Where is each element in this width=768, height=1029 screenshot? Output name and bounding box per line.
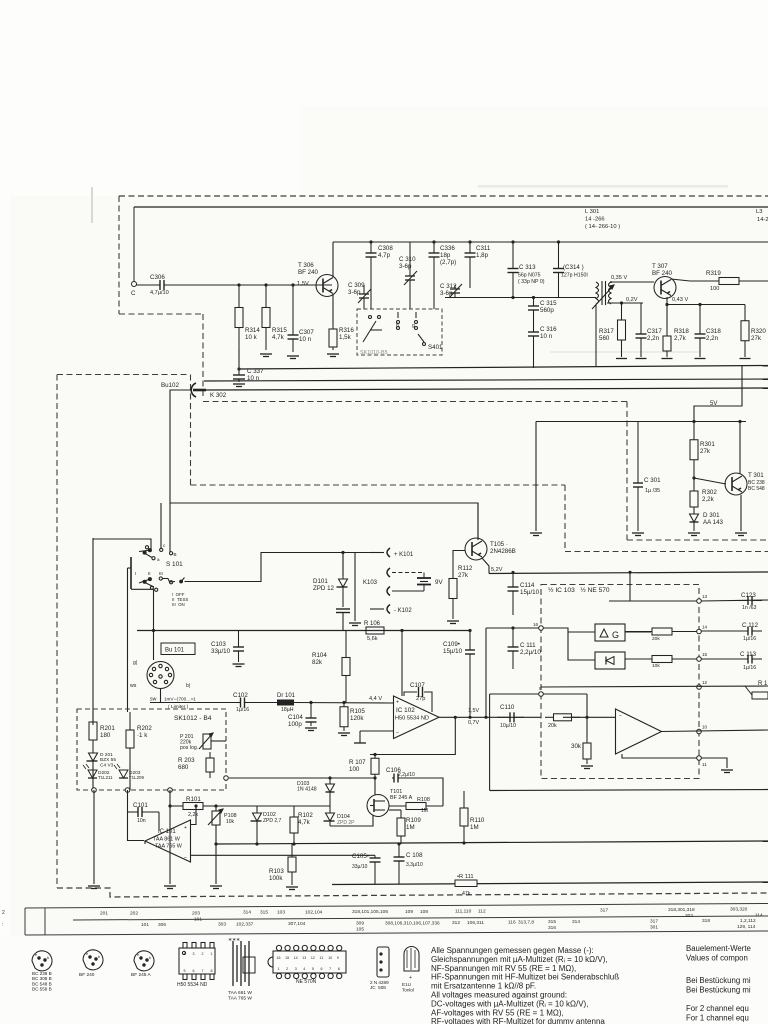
svg-text:14: 14 xyxy=(702,625,708,630)
svg-text:5: 5 xyxy=(312,967,314,971)
trimmer C312 xyxy=(449,284,462,298)
svg-text:Bei Bestückung mi: Bei Bestückung mi xyxy=(686,976,751,985)
T301 emitter wire xyxy=(740,495,742,531)
svg-text:+: + xyxy=(396,700,399,706)
svg-text:1,2,112: 1,2,112 xyxy=(740,918,756,924)
svg-text:I: I xyxy=(135,571,136,576)
node C109 top xyxy=(468,629,471,632)
SK box pin mid xyxy=(125,788,130,793)
capacitor C313 xyxy=(508,242,519,298)
svg-text:10µ/10: 10µ/10 xyxy=(500,723,516,729)
svg-text:1µ /35: 1µ /35 xyxy=(645,488,660,494)
pin 16 xyxy=(539,626,544,631)
wire R109 top xyxy=(389,809,401,811)
resistor R301 xyxy=(690,422,698,479)
svg-text:C 312: C 312 xyxy=(440,283,457,290)
svg-text:C 310: C 310 xyxy=(399,256,416,263)
svg-text:10k: 10k xyxy=(226,819,235,825)
node D102 bottom xyxy=(255,842,258,845)
svg-text:K 302: K 302 xyxy=(210,392,227,399)
capacitor C308 xyxy=(366,242,377,309)
svg-text:C306: C306 xyxy=(150,274,165,281)
svg-text:16: 16 xyxy=(277,956,281,960)
svg-text:SK1010-B5: SK1010-B5 xyxy=(360,350,388,356)
capacitor C107 feedback loop xyxy=(404,687,432,712)
resistor R109 xyxy=(397,810,405,844)
svg-text:ZPD 12: ZPD 12 xyxy=(313,585,335,592)
svg-text:C308: C308 xyxy=(378,245,393,252)
T307 collector wire xyxy=(671,279,690,281)
plug arrow K102 xyxy=(387,605,390,614)
svg-text:R109: R109 xyxy=(406,817,421,824)
svg-text:2: 2 xyxy=(202,952,204,956)
audio input rail xyxy=(137,630,470,632)
C318 end bar xyxy=(695,358,706,360)
tuner box top edge xyxy=(134,206,768,208)
wire S101 to Bu101 xyxy=(153,589,155,660)
node D103 top xyxy=(328,776,331,779)
svg-text:1,5V: 1,5V xyxy=(297,281,309,287)
ground R316 xyxy=(327,354,339,357)
svg-text:R102: R102 xyxy=(298,812,313,819)
zener D101 xyxy=(337,553,348,608)
node D101 top xyxy=(341,551,344,554)
plug arrow K103 upper xyxy=(387,568,390,577)
wire pin13 out xyxy=(701,600,768,601)
svg-text:R105: R105 xyxy=(350,708,365,715)
svg-text:L 301: L 301 xyxy=(585,209,599,215)
svg-text:7: 7 xyxy=(202,969,204,973)
node R314 top xyxy=(237,283,240,286)
transistor T301 xyxy=(725,473,747,495)
svg-text:13: 13 xyxy=(302,956,306,960)
svg-text:318: 318 xyxy=(702,918,710,924)
capacitor C123 xyxy=(738,596,762,605)
svg-text:33µ/10: 33µ/10 xyxy=(211,648,231,655)
node P108 bottom xyxy=(214,842,217,845)
wire cells input xyxy=(543,628,595,660)
wire R202 down xyxy=(129,766,131,790)
resistor R111 xyxy=(455,880,477,887)
svg-text:114: 114 xyxy=(755,913,763,919)
ground 30k xyxy=(581,766,593,769)
svg-text:15µ/10: 15µ/10 xyxy=(443,648,463,655)
svg-text:C110: C110 xyxy=(500,704,515,711)
svg-text:127p H150I: 127p H150I xyxy=(561,273,588,279)
wire pin16 to cells xyxy=(486,627,541,629)
potentiometer P108 xyxy=(208,809,223,825)
svg-text:10: 10 xyxy=(702,725,708,730)
svg-text:C318: C318 xyxy=(706,328,721,335)
svg-text:HF-Spannungen mit HF-Multizet: HF-Spannungen mit HF-Multizet bei Sender… xyxy=(431,973,619,982)
svg-text:L3: L3 xyxy=(756,209,762,215)
svg-text:BF 240: BF 240 xyxy=(79,972,95,978)
node C114 xyxy=(511,571,514,574)
audio wire Bu101 out xyxy=(150,702,236,704)
svg-text:56p N075: 56p N075 xyxy=(518,273,541,279)
svg-text:1M: 1M xyxy=(421,808,428,814)
svg-text:For 1 channel equ: For 1 channel equ xyxy=(686,1014,749,1023)
svg-text:10k: 10k xyxy=(652,663,660,669)
resistor R314 xyxy=(235,285,243,350)
T301 base wire xyxy=(694,478,726,484)
svg-text:100p: 100p xyxy=(288,721,302,728)
svg-text:303,320: 303,320 xyxy=(730,907,748,913)
switch S101 contacts xyxy=(131,546,185,592)
resistor R101 xyxy=(170,803,216,810)
svg-text:105: 105 xyxy=(356,927,364,933)
dashed lower frame top edge xyxy=(57,374,190,376)
svg-text:C 315: C 315 xyxy=(540,300,557,307)
svg-text:27k: 27k xyxy=(700,448,711,455)
svg-text:BF 245 A: BF 245 A xyxy=(390,795,413,801)
node R105 xyxy=(342,701,345,704)
LED D202 xyxy=(88,770,97,778)
wire pin16 drop xyxy=(485,628,487,717)
svg-text:302: 302 xyxy=(685,913,693,919)
wire antenna input xyxy=(137,284,159,286)
svg-text:30k: 30k xyxy=(571,743,582,750)
resistor R112 xyxy=(449,558,457,619)
resistor R302 xyxy=(690,488,698,510)
svg-text:11: 11 xyxy=(702,762,707,767)
capacitor C337 xyxy=(233,369,245,382)
wire opamp minus xyxy=(563,716,616,718)
svg-text:AF-voltages with RV 55 (RE = 1: AF-voltages with RV 55 (RE = 1 MΩ), xyxy=(431,1008,564,1017)
svg-text:10: 10 xyxy=(328,956,332,960)
svg-text:C103: C103 xyxy=(211,641,226,648)
resistor 10k rect xyxy=(625,656,699,663)
capacitor C307 xyxy=(288,285,299,352)
wire minus input line xyxy=(191,854,376,856)
svg-text:1M: 1M xyxy=(406,824,415,831)
capacitor C108 xyxy=(394,844,405,884)
ground C307 xyxy=(287,356,299,359)
svg-text:T 307: T 307 xyxy=(652,263,668,270)
wire 30k top xyxy=(586,694,588,738)
ground X102 xyxy=(349,623,361,626)
svg-text:108: 108 xyxy=(420,909,428,915)
resistor R105 xyxy=(340,703,348,732)
wire S101 c branch xyxy=(160,503,162,549)
svg-text:1: 1 xyxy=(211,952,213,956)
IC101 output xyxy=(216,841,768,844)
svg-text:307,104: 307,104 xyxy=(288,921,306,927)
node rail feed xyxy=(628,571,631,574)
resistor R106 xyxy=(348,627,402,634)
svg-text:3,3µ/10: 3,3µ/10 xyxy=(406,862,423,868)
svg-text:8: 8 xyxy=(338,967,340,971)
capacitor C110 xyxy=(497,712,524,722)
svg-text:T 301: T 301 xyxy=(748,472,764,479)
diode D301 xyxy=(690,510,699,531)
svg-text:sw: sw xyxy=(150,697,157,703)
svg-text:T105 ·: T105 · xyxy=(490,541,508,548)
wire pin9 entry xyxy=(490,693,587,695)
svg-text:R110: R110 xyxy=(470,817,485,824)
capacitor C109 xyxy=(465,631,475,718)
wire P201 out xyxy=(211,740,226,742)
ground D301 xyxy=(688,533,700,536)
dashed inner step vertical xyxy=(564,485,566,552)
svg-text:129, 114: 129, 114 xyxy=(737,924,756,930)
svg-text:14-2: 14-2 xyxy=(757,217,768,223)
resistor 30k xyxy=(583,738,591,764)
resistor R317 xyxy=(618,303,626,357)
svg-text:( 14- 266-10 ): ( 14- 266-10 ) xyxy=(585,224,620,230)
antenna terminal C xyxy=(132,282,137,287)
svg-text:3-6p: 3-6p xyxy=(440,290,453,297)
svg-text:6: 6 xyxy=(193,969,195,973)
transformer L301 winding xyxy=(592,281,614,366)
svg-text:14 -266: 14 -266 xyxy=(585,217,605,223)
node R317 tap xyxy=(620,301,623,304)
wire feed R201 xyxy=(92,538,94,725)
audio wire to Dr101 xyxy=(249,702,277,704)
svg-text:18p: 18p xyxy=(440,252,451,259)
svg-text:C 108: C 108 xyxy=(406,852,423,859)
svg-text:1µ/16: 1µ/16 xyxy=(236,707,249,713)
wire Bu102 to junction xyxy=(170,390,478,540)
node C109 bottom xyxy=(468,716,471,719)
svg-text:101: 101 xyxy=(194,917,202,923)
svg-text:1n /63: 1n /63 xyxy=(742,605,757,611)
svg-text:303: 303 xyxy=(218,922,226,928)
svg-text:III: III xyxy=(159,571,163,576)
svg-text:315: 315 xyxy=(548,919,556,925)
resistor R107 xyxy=(371,755,379,779)
dashed inner lower horizontal xyxy=(565,551,768,553)
T306 collector wire xyxy=(332,242,334,277)
node C337 junction xyxy=(237,367,240,370)
pin 14 xyxy=(697,629,702,634)
svg-text:2: 2 xyxy=(2,910,5,916)
svg-text:•R 111: •R 111 xyxy=(457,874,474,880)
svg-text:+: + xyxy=(409,975,412,981)
svg-text:R302: R302 xyxy=(702,489,717,496)
ground pin11 xyxy=(721,770,733,773)
svg-text:T1L209: T1L209 xyxy=(129,775,144,780)
zener D102 xyxy=(251,806,262,844)
svg-text:2N4286B: 2N4286B xyxy=(490,548,516,555)
svg-text:b|: b| xyxy=(186,683,190,689)
svg-text:C102: C102 xyxy=(233,692,248,699)
IC102 lower input bar xyxy=(354,742,366,744)
svg-text:R320: R320 xyxy=(751,328,766,335)
socket Bu101 box xyxy=(161,643,195,655)
node R106 IC102 xyxy=(400,629,403,632)
svg-text:4: 4 xyxy=(184,952,186,956)
wire plus input xyxy=(191,806,197,825)
svg-text::: : xyxy=(2,922,3,928)
svg-text:560: 560 xyxy=(599,335,610,342)
svg-text:301: 301 xyxy=(650,925,658,931)
svg-text:10 n: 10 n xyxy=(540,333,553,340)
svg-text:314: 314 xyxy=(572,919,580,925)
node C313 rail xyxy=(511,240,514,243)
svg-text:e: e xyxy=(35,953,37,957)
svg-text:3: 3 xyxy=(295,967,297,971)
svg-text:R318: R318 xyxy=(674,328,689,335)
svg-text:ws: ws xyxy=(130,683,137,689)
dashed divider bottom right xyxy=(627,539,768,541)
svg-text:202: 202 xyxy=(130,911,138,917)
svg-text:TAA 765 W: TAA 765 W xyxy=(155,844,183,850)
svg-text:T 306: T 306 xyxy=(298,262,314,269)
ground C103 xyxy=(233,664,245,667)
svg-text:–: – xyxy=(184,855,187,861)
node C314 rail xyxy=(557,240,560,243)
SK box pin right xyxy=(168,788,173,793)
zener D201 xyxy=(87,750,98,766)
T307 emitter wire xyxy=(666,297,668,330)
IC102 lower input drop xyxy=(359,731,361,743)
svg-text:8: 8 xyxy=(211,969,213,973)
svg-text:0,35 V: 0,35 V xyxy=(611,275,627,281)
svg-text:H50 5534 ND: H50 5534 ND xyxy=(395,716,429,722)
package 2N4289 outline xyxy=(377,947,389,977)
svg-text:R314: R314 xyxy=(245,327,260,334)
dashed battery wire xyxy=(392,572,424,574)
node T301 rail xyxy=(738,420,741,423)
capacitor C315 xyxy=(528,298,539,323)
svg-text:TAA 765 W: TAA 765 W xyxy=(228,995,252,1001)
T306 emitter wire xyxy=(332,294,334,326)
ground R105 xyxy=(338,733,350,736)
svg-text:27p: 27p xyxy=(416,696,425,702)
svg-text:4,7k: 4,7k xyxy=(298,819,311,826)
package E1U outline xyxy=(404,947,419,981)
svg-text:Gleichspannungen mit µA-Multiz: Gleichspannungen mit µA-Multizet (Rᵢ = 1… xyxy=(431,955,608,964)
dashed lower frame inner vertical xyxy=(190,375,192,486)
node emitter tap xyxy=(665,303,668,306)
svg-text:( 33p NP 0): ( 33p NP 0) xyxy=(518,279,545,285)
wire C101 branch xyxy=(127,790,129,812)
svg-text:C 316: C 316 xyxy=(540,326,557,333)
svg-text:0,2V: 0,2V xyxy=(626,297,638,303)
ground R112 xyxy=(447,621,459,624)
wire S101 bracket stub xyxy=(128,567,132,569)
svg-text:R301: R301 xyxy=(700,441,715,448)
svg-text:11: 11 xyxy=(320,956,324,960)
base side tap line xyxy=(607,302,643,304)
package TAA661 stripes xyxy=(233,941,255,986)
resistor R319 xyxy=(690,278,768,285)
svg-text:IC 101: IC 101 xyxy=(158,829,176,835)
svg-text:–: – xyxy=(619,713,622,719)
svg-text:10 n: 10 n xyxy=(247,375,260,382)
svg-text:318,101,105,106: 318,101,105,106 xyxy=(352,909,388,915)
svg-text:18µH: 18µH xyxy=(281,707,294,713)
resistor R203 xyxy=(206,752,214,778)
svg-text:AA 143: AA 143 xyxy=(703,519,724,526)
svg-text:312: 312 xyxy=(452,920,460,926)
node C307 top xyxy=(291,283,294,286)
capacitor C102 xyxy=(236,698,249,708)
svg-text:BF 240: BF 240 xyxy=(298,269,319,276)
svg-text:5,6k: 5,6k xyxy=(367,636,378,642)
svg-text:(2,7p): (2,7p) xyxy=(440,259,456,266)
svg-text:D101: D101 xyxy=(313,578,328,585)
ground left branch xyxy=(530,533,542,536)
wire S101 B branch xyxy=(169,503,171,552)
svg-text:7: 7 xyxy=(329,967,331,971)
svg-text:1,5V: 1,5V xyxy=(468,708,479,714)
svg-text:13: 13 xyxy=(702,594,708,599)
wire S101 to R202 xyxy=(127,568,129,712)
svg-text:TAA 861 W: TAA 861 W xyxy=(153,837,181,843)
svg-text:103: 103 xyxy=(277,910,285,916)
svg-text:317: 317 xyxy=(650,919,658,925)
resistor R202 xyxy=(126,712,134,766)
svg-text:1,8p: 1,8p xyxy=(476,252,489,259)
svg-text:4,7p: 4,7p xyxy=(378,252,391,259)
svg-text:2,2k: 2,2k xyxy=(702,496,715,503)
svg-text:D 201: D 201 xyxy=(100,752,113,758)
svg-text:6: 6 xyxy=(321,967,323,971)
svg-text:IC 102: IC 102 xyxy=(396,707,415,714)
svg-text:47k: 47k xyxy=(462,891,471,897)
wire R301 to R302 xyxy=(693,478,695,488)
capacitor C301 xyxy=(633,422,643,532)
resistor R108 xyxy=(389,803,443,810)
svg-text:1mV∼|700…≈1: 1mV∼|700…≈1 xyxy=(164,697,196,702)
wire feedback to R107 line xyxy=(370,717,455,754)
T105 collector wire xyxy=(477,503,479,540)
svg-text:0,7V: 0,7V xyxy=(468,720,479,726)
node feedback xyxy=(454,716,457,719)
tuner top rail xyxy=(333,241,768,243)
svg-text:R 1: R 1 xyxy=(758,681,768,687)
op-amp IC101 xyxy=(145,820,191,862)
ground T301 xyxy=(735,533,747,536)
IC102 output wire xyxy=(439,716,541,718)
ground supply column xyxy=(164,886,176,889)
pin 10 xyxy=(697,729,702,734)
svg-text:NE 570N: NE 570N xyxy=(296,979,317,985)
audio section bottom rail xyxy=(490,790,768,791)
svg-text:DC-voltages with µA-Multizet (: DC-voltages with µA-Multizet (Rᵢ = 10 kΩ… xyxy=(431,999,588,1008)
svg-text:G: G xyxy=(612,630,619,640)
svg-text:313,7,8: 313,7,8 xyxy=(518,920,534,926)
potentiometer P201 xyxy=(199,733,213,749)
svg-text:308,106,310,106,107,336: 308,106,310,106,107,336 xyxy=(385,921,440,927)
node R107 top xyxy=(373,753,376,756)
svg-text:16: 16 xyxy=(533,622,539,627)
svg-text:B: B xyxy=(174,552,177,557)
tuner ground rail xyxy=(239,366,768,370)
svg-text:2,7k: 2,7k xyxy=(674,335,687,342)
node C311 rail xyxy=(468,240,471,243)
node pin16 drop xyxy=(484,716,487,719)
svg-text:JC 508: JC 508 xyxy=(370,985,386,990)
svg-text:3-6p: 3-6p xyxy=(399,263,412,270)
ground R315 xyxy=(260,354,272,357)
emitter tap line xyxy=(667,304,745,306)
svg-text:R319: R319 xyxy=(706,270,721,277)
svg-text:C123: C123 xyxy=(741,592,756,599)
R317 end bar xyxy=(616,358,627,360)
svg-text:14: 14 xyxy=(294,956,298,960)
svg-text:pos log.: pos log. xyxy=(180,745,198,751)
svg-text:201: 201 xyxy=(100,911,108,917)
tuner mid wire xyxy=(445,297,594,299)
transistor T101 FET xyxy=(367,795,389,817)
svg-text:318,301,318: 318,301,318 xyxy=(668,907,695,913)
node R107 bottom xyxy=(373,776,376,779)
svg-text:R112: R112 xyxy=(458,565,473,572)
svg-text:5: 5 xyxy=(184,969,186,973)
